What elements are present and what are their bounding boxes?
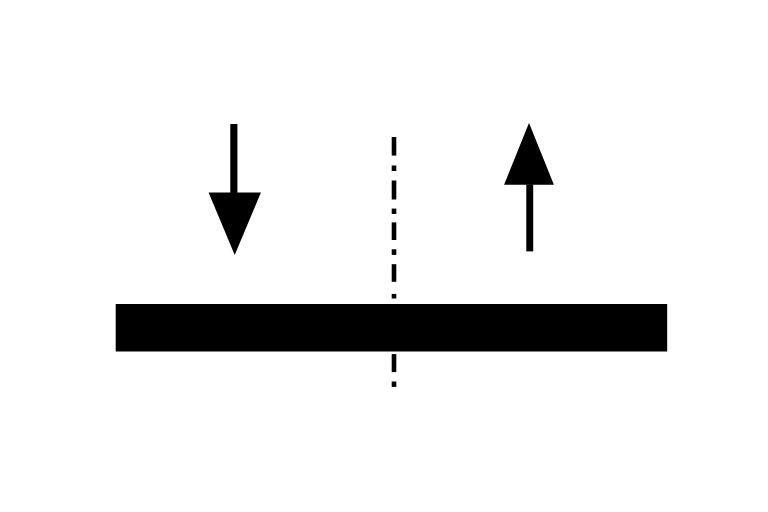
down arrow head [209, 193, 261, 256]
center line dash 3 [392, 222, 397, 240]
beam bar [116, 304, 668, 352]
center line dash 4 [392, 264, 397, 282]
center line dot 1 [392, 166, 397, 172]
center line dot 5 [392, 382, 397, 387]
up arrow head [504, 123, 554, 185]
down arrow shaft [230, 124, 237, 193]
center line dot 3 [392, 249, 397, 255]
center line dash 5 (below bar) [392, 354, 397, 372]
center line (dash-dot), segment dash 1 [392, 137, 397, 156]
up arrow shaft [526, 185, 533, 252]
center line dot 4 [392, 294, 397, 299]
center line dot 2 [392, 209, 397, 214]
center line dash 2 [392, 181, 397, 200]
